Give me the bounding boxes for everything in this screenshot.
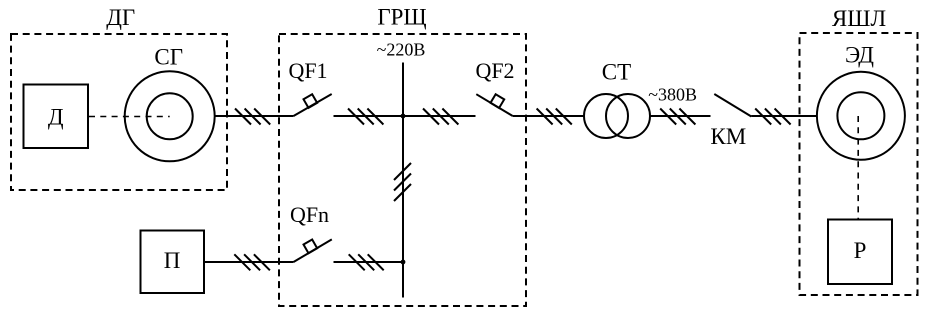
three-phase hatch on busbar <box>394 163 411 201</box>
enclosure box ДГ (diesel-generator set, dashed) <box>11 34 227 190</box>
svg-text:ЭД: ЭД <box>845 43 874 68</box>
motor ЭД outer circle <box>817 72 905 160</box>
breaker QFn blade <box>294 239 332 262</box>
transformer СТ primary circle <box>584 94 628 138</box>
breaker QFn square <box>304 240 318 254</box>
block П (consumer) <box>141 231 205 294</box>
svg-text:П: П <box>164 248 181 273</box>
wire QFn to bus <box>334 261 404 263</box>
junction node bus/upper wire <box>401 114 406 119</box>
breaker QF2 square <box>491 94 505 108</box>
busbar vertical line <box>402 63 404 298</box>
shaft link ЭД to Р (dashed) <box>857 116 859 219</box>
wire СТ to КМ <box>650 115 711 117</box>
svg-text:~220В: ~220В <box>377 40 426 60</box>
svg-text:ЯШЛ: ЯШЛ <box>832 6 886 31</box>
three-phase hatch on wire СТ-КМ <box>660 109 695 125</box>
junction node bus/lower wire <box>401 260 406 265</box>
svg-text:QFn: QFn <box>290 202 329 227</box>
wire bus to QF2 <box>403 115 476 117</box>
shaft link Д to СГ (dashed) <box>89 116 170 118</box>
svg-text:QF2: QF2 <box>475 58 514 83</box>
wire QF1 to bus <box>334 115 404 117</box>
breaker QF1 blade <box>294 94 332 116</box>
svg-text:Р: Р <box>854 238 867 263</box>
three-phase hatch on wire QF1-bus <box>348 109 383 125</box>
motor ЭД inner circle <box>837 92 884 139</box>
three-phase hatch on wire QFn-bus <box>349 254 384 270</box>
wire П to QFn <box>204 261 294 263</box>
svg-text:СТ: СТ <box>602 60 631 85</box>
breaker QF2 blade <box>476 94 512 116</box>
block Д (diesel engine) <box>24 85 89 149</box>
generator СГ outer circle <box>125 71 215 161</box>
enclosure box ГРЩ (main switchboard, dashed) <box>279 34 526 306</box>
svg-text:~380В: ~380В <box>648 85 697 105</box>
svg-text:ГРЩ: ГРЩ <box>377 5 426 30</box>
three-phase hatch on wire СГ-QF1 <box>235 109 270 125</box>
generator СГ inner circle <box>147 93 193 139</box>
svg-text:КМ: КМ <box>710 124 746 149</box>
three-phase hatch on wire КМ-ЭД <box>755 109 790 125</box>
svg-text:ДГ: ДГ <box>106 5 135 30</box>
contactor КМ blade <box>714 94 751 117</box>
enclosure box ЯШЛ (motor starter box, dashed) <box>800 33 918 295</box>
transformer СТ secondary circle <box>606 94 650 138</box>
svg-text:QF1: QF1 <box>288 58 327 83</box>
three-phase hatch on wire QF2-СТ <box>537 109 572 125</box>
svg-text:Д: Д <box>48 105 64 130</box>
wire QF2 to СТ <box>513 115 584 117</box>
block Р (driven mechanism) <box>828 220 892 285</box>
wire СГ to QF1 <box>215 115 294 117</box>
three-phase hatch on wire bus-QF2 <box>423 109 458 125</box>
svg-text:СГ: СГ <box>154 45 183 70</box>
three-phase hatch on wire П-QFn <box>234 254 270 270</box>
wire КМ to ЭД <box>751 115 817 117</box>
breaker QF1 square <box>304 94 318 108</box>
